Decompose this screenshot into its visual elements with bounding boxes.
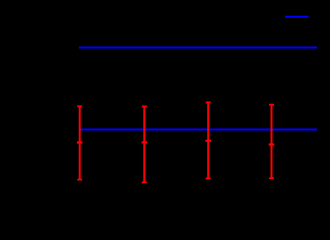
error bar 4 bottom cap (269, 177, 274, 179)
error bar 4 stem (271, 105, 273, 179)
error bar 2 bottom cap (142, 181, 147, 183)
data point marker 4 (269, 143, 275, 145)
error bar 1 top cap (77, 105, 82, 107)
data point marker 1 (77, 141, 83, 143)
data point marker 3 (205, 140, 211, 142)
error bar 4 top cap (269, 104, 274, 106)
error bar 1 stem (79, 106, 81, 179)
error bar 3 stem (207, 102, 209, 178)
data point marker 2 (142, 141, 148, 143)
error bar 2 stem (143, 106, 145, 182)
top fit line (blue) (79, 47, 317, 49)
error bar 2 top cap (142, 105, 147, 107)
error bar 1 bottom cap (77, 179, 82, 181)
error bar 3 top cap (206, 101, 211, 103)
legend line sample (blue) (285, 16, 309, 18)
error bar 3 bottom cap (206, 177, 211, 179)
middle fit line (blue) (79, 129, 317, 131)
